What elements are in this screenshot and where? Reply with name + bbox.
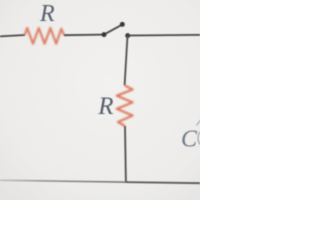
partial glyph cut at right edge — [198, 131, 201, 145]
switch S1 (open) — [102, 22, 131, 38]
svg-text:R: R — [97, 93, 113, 120]
wire: switch node down to resistor R2 — [125, 36, 128, 86]
switch lever tip dot — [120, 22, 125, 27]
partial capacitor mark at right edge — [197, 120, 202, 126]
resistor R2 (vertical zigzag) — [117, 85, 133, 126]
svg-text:C: C — [181, 126, 198, 152]
switch left contact dot — [102, 32, 107, 37]
switch lever — [104, 25, 122, 35]
wire: bottom return wire right segment — [126, 182, 200, 183]
wire: resistor R2 down to bottom wire — [124, 126, 127, 182]
wire: bottom return wire — [0, 180, 126, 182]
switch right contact dot — [125, 33, 130, 38]
resistor R1 (horizontal zigzag) — [25, 28, 64, 44]
svg-text:R: R — [39, 1, 55, 27]
wire: top-left lead into resistor R1 — [0, 35, 25, 36]
wire: resistor R1 to switch — [64, 34, 104, 37]
wire: switch to right edge (top) — [128, 34, 200, 37]
